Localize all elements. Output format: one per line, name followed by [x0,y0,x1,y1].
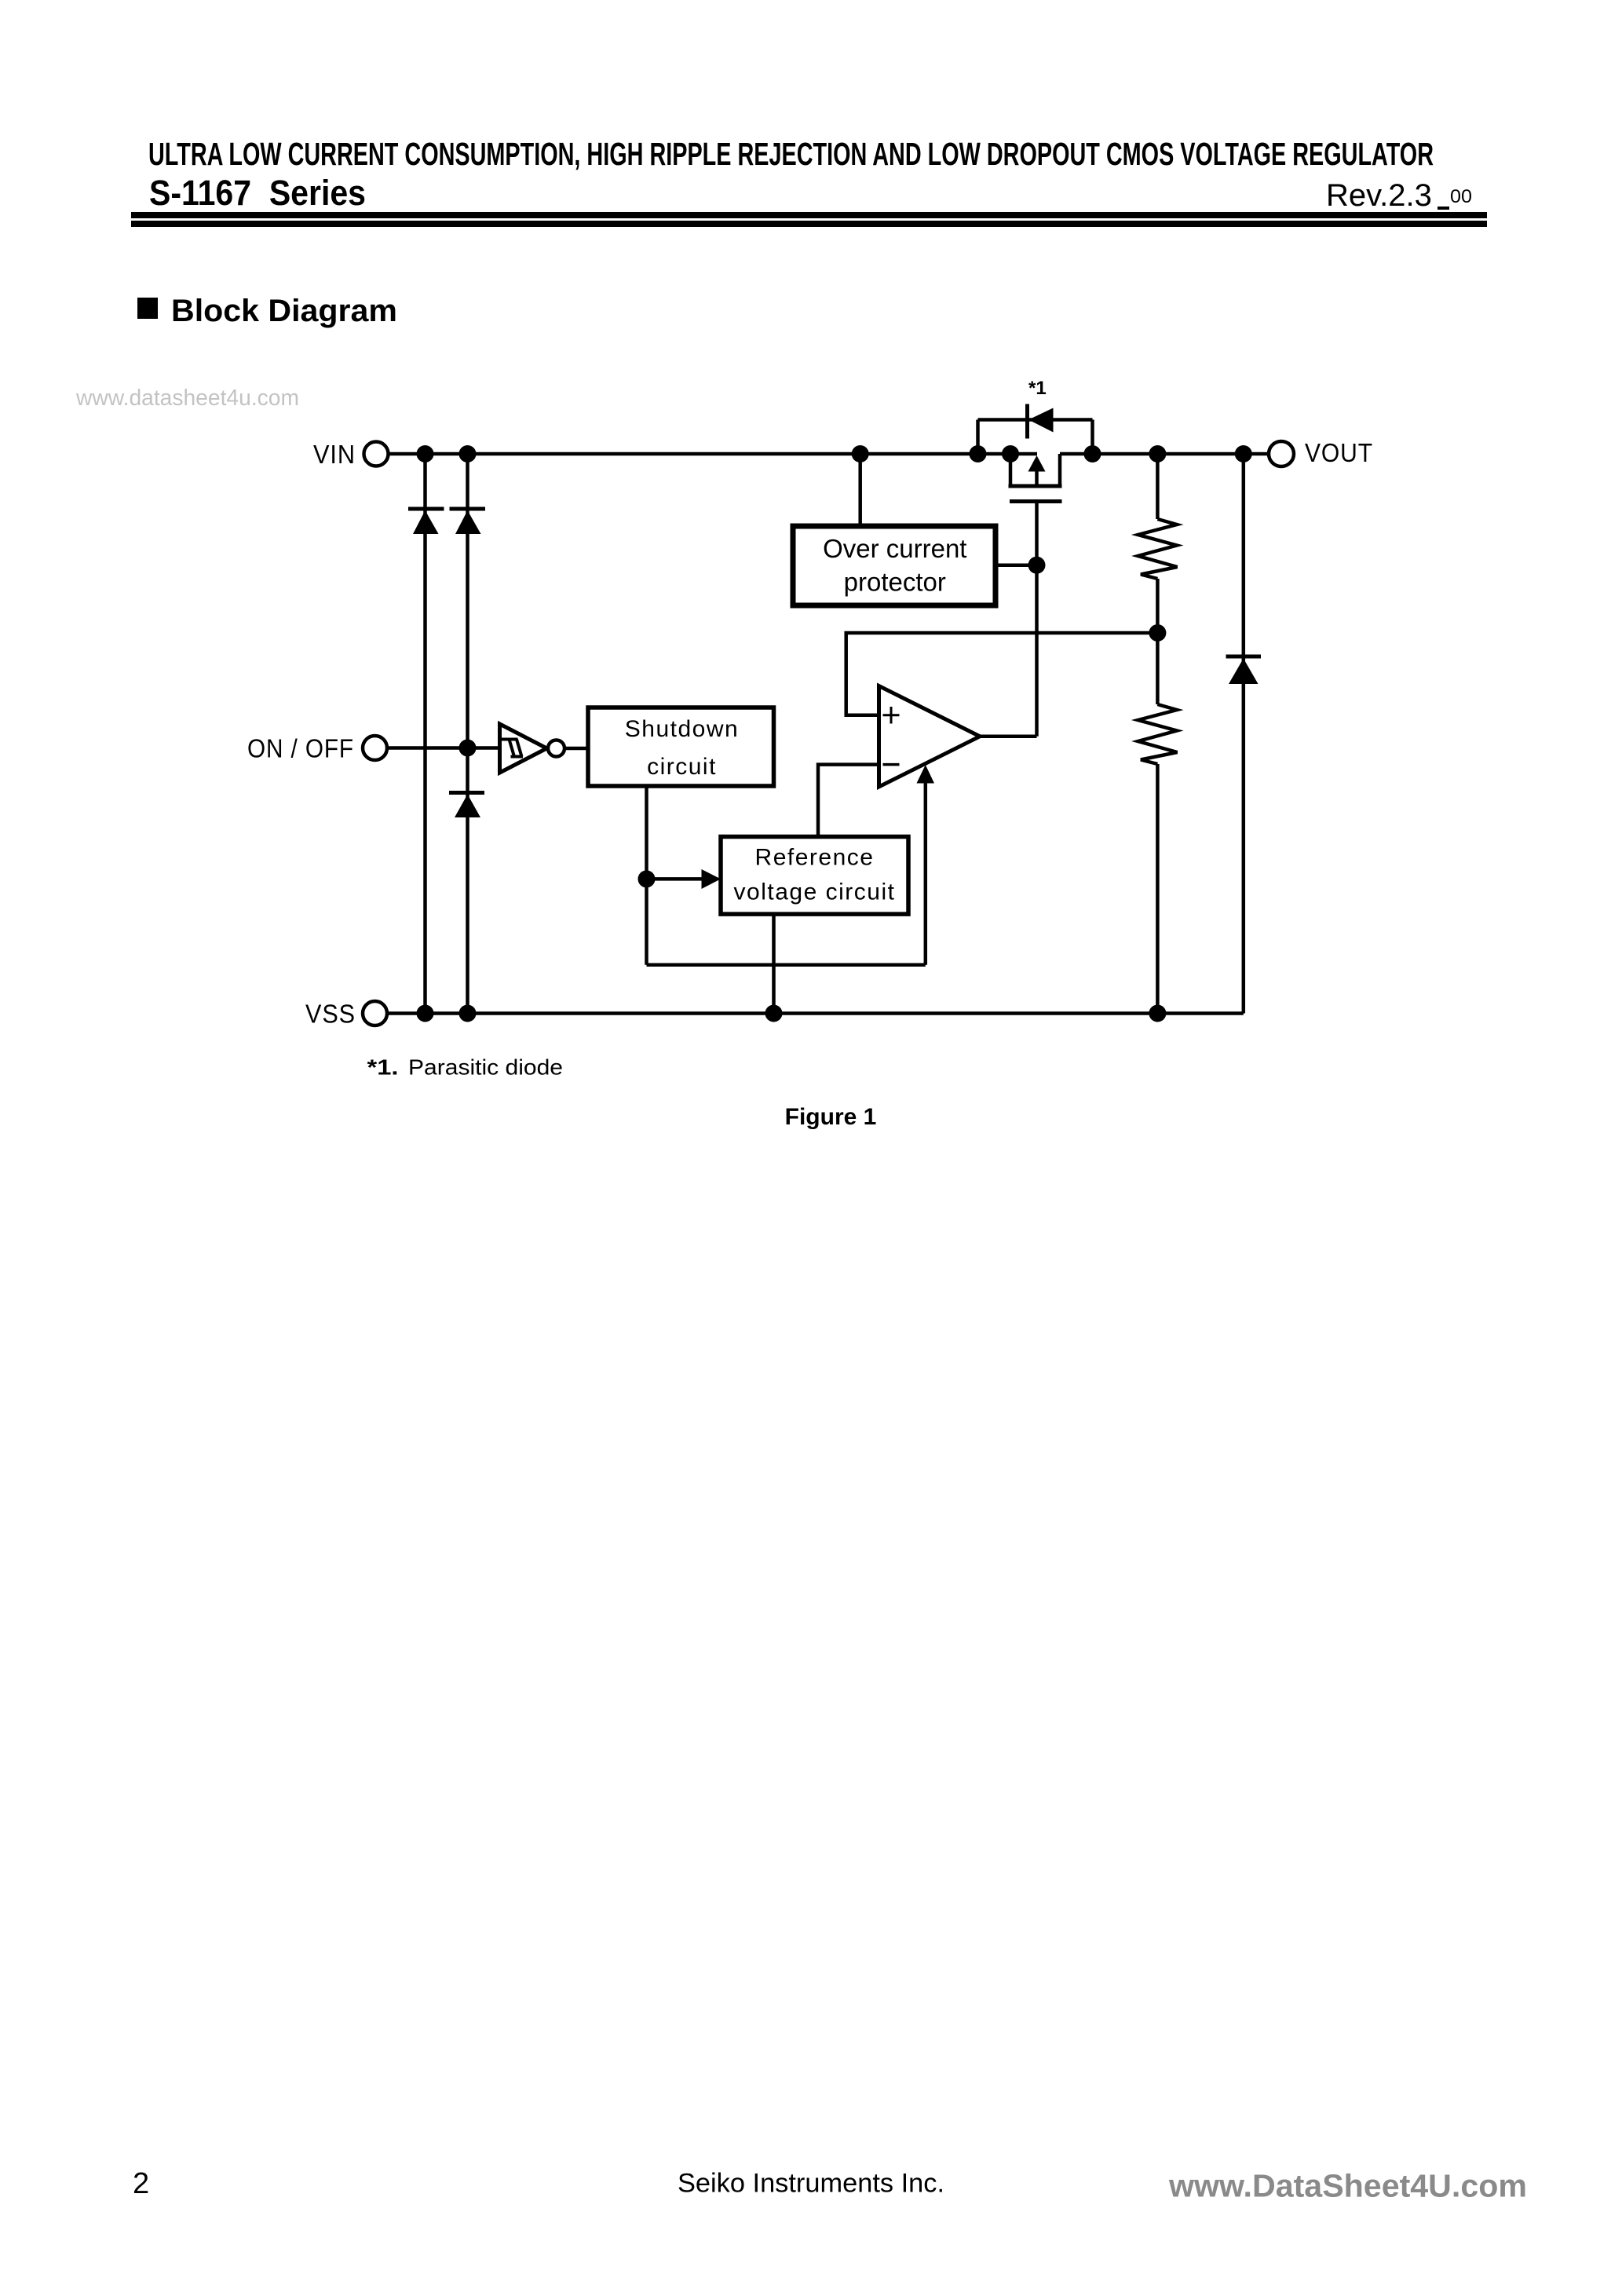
port VOUT terminal circle and label [1269,438,1373,467]
svg-text:00: 00 [1450,186,1472,207]
svg-text:ULTRA LOW CURRENT CONSUMPTION,: ULTRA LOW CURRENT CONSUMPTION, HIGH RIPP… [148,136,1434,172]
node junction loop left on VIN rail [970,445,987,462]
node junction R1 top on VOUT rail [1149,445,1166,462]
wire output clamp diode branch vertical [1242,454,1246,1014]
svg-text:2: 2 [133,2167,149,2200]
resistor R1 upper divider resistor [1138,454,1178,633]
wire VSS rail [387,1011,1244,1015]
wire parasitic diode loop top horizontal [978,418,1093,422]
node junction line 1 on VSS rail [417,1005,434,1022]
svg-text:Parasitic diode: Parasitic diode [408,1055,563,1080]
wire main rail (right of pass transistor) to VOUT [1060,452,1269,456]
wire op-amp plus input feedback to divider tap [846,633,1158,715]
port VSS terminal circle and label [305,1000,387,1029]
wire arrow feed from bias node into reference box [647,869,721,889]
wire bias riser up to op-amp tail arrow [924,783,928,965]
svg-text:Figure 1: Figure 1 [785,1104,877,1130]
header revision Rev.2.3_00 [1326,178,1472,213]
node junction R2 bottom on VSS rail [1149,1005,1166,1022]
node junction on VIN rail at line 2 [459,445,477,462]
block over current protector box [793,526,995,605]
diode D4 parasitic diode *1 [1028,378,1054,439]
node junction ON/OFF wire with line 2 [459,740,477,757]
wire inverter output to shutdown circuit box [564,747,589,751]
svg-text:Rev.2.3: Rev.2.3 [1326,178,1432,213]
wire vertical line 1 (VIN to VSS through ESD diode) [423,454,427,1014]
svg-text:www.DataSheet4U.com: www.DataSheet4U.com [1168,2168,1527,2204]
diode D1 ESD diode on line 1 [408,509,444,534]
watermark www.datasheet4u.com [75,386,299,411]
svg-text:circuit: circuit [647,754,717,780]
node junction clamp branch on VOUT rail [1235,445,1252,462]
svg-text:VSS: VSS [305,1000,356,1029]
wire reference box bottom lead to VSS rail [772,914,776,1014]
transistor Q1 PMOS pass transistor [1009,454,1062,502]
wire bias loop bottom horizontal [647,963,926,967]
wire VIN main rail (left of pass transistor) [389,452,1038,456]
svg-text:protector: protector [844,568,946,597]
node junction over current protector lead on VIN rail [852,445,869,462]
svg-text:VIN: VIN [313,440,356,469]
wire gate line vertical (op-amp output up to pass transistor gate) [1035,502,1039,737]
svg-text:*1.: *1. [367,1055,399,1080]
svg-text:ON / OFF: ON / OFF [247,734,354,763]
diode D2 ESD diode on line 2 [450,509,486,534]
node junction loop right on VOUT rail [1084,445,1101,462]
svg-text:voltage circuit: voltage circuit [734,879,896,905]
svg-text:Seiko Instruments Inc.: Seiko Instruments Inc. [678,2169,944,2199]
caption Figure 1 [785,1104,877,1130]
section heading Block Diagram [137,294,397,328]
svg-text:*1: *1 [1028,378,1047,399]
wire parasitic diode loop right riser [1090,420,1094,455]
node junction divider tap [1149,624,1166,642]
op-amp U1 error amplifier [879,686,981,788]
wire shutdown box bottom lead down to bias node [645,786,648,965]
wire ON/OFF input to Schmitt inverter [387,746,500,750]
node junction bias node on shutdown lead [638,870,656,887]
node junction reference lead on VSS rail [765,1005,783,1022]
note *1 parasitic diode [367,1055,564,1080]
port ON/OFF terminal circle and label [247,734,387,763]
node junction source of pass transistor on VIN rail [1002,445,1019,462]
block reference voltage circuit box [721,837,908,915]
node junction line 2 on VSS rail [459,1005,477,1022]
wire vertical line 2 (VIN to VSS) [466,454,469,1014]
resistor R2 lower divider resistor [1138,633,1178,1014]
header double rule [131,212,1487,227]
wire over current protector top lead to VIN rail [858,454,862,526]
node junction on VIN rail at line 1 [417,445,434,462]
svg-text:S-1167 Series: S-1167 Series [149,173,366,213]
svg-text:Shutdown: Shutdown [625,716,739,742]
svg-text:VOUT: VOUT [1305,438,1373,467]
port VIN terminal circle and label [313,440,389,469]
inverter U2 Schmitt trigger [500,724,565,773]
node junction gate line with over current protector output [1028,557,1046,574]
svg-text:www.datasheet4u.com: www.datasheet4u.com [75,386,299,411]
header product name S-1167 Series [149,173,366,213]
wire over current protector output to gate line [995,563,1037,567]
wire op-amp minus input to reference box top [818,765,879,837]
header title line [148,136,1434,172]
block shutdown circuit box [588,707,774,786]
svg-text:Over current: Over current [823,534,966,563]
wire op-amp output to gate line [980,735,1037,739]
svg-text:Block Diagram: Block Diagram [171,294,397,328]
wire parasitic diode loop left riser [976,420,980,455]
svg-text:Reference: Reference [755,845,875,871]
diode D5 output clamp diode [1226,656,1262,684]
diode D3 ESD diode on line 2 below ON/OFF tap [449,793,484,818]
op-amp U1 tail current source arrow [917,765,935,784]
